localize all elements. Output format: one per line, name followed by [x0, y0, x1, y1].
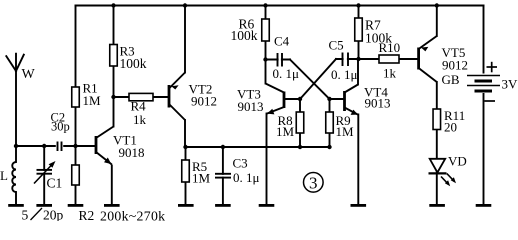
node rail VT2 emitter junction: [183, 3, 187, 7]
wire top supply rail: [76, 5, 484, 7]
ground (C3): [215, 204, 231, 207]
svg-text:C3: C3: [233, 156, 248, 171]
wire VT3 base lead: [284, 98, 300, 100]
svg-text:9018: 9018: [119, 145, 145, 160]
node R6/C4/VT3 collector junction: [263, 57, 267, 61]
svg-text:R2: R2: [79, 208, 95, 221]
capacitor C4: [273, 33, 300, 81]
label C1 value: [22, 208, 64, 223]
wire base wire VT1: [16, 145, 96, 147]
resistor R10: [379, 40, 401, 81]
wire R10 run: [359, 58, 419, 60]
svg-text:W: W: [22, 67, 36, 82]
svg-text:0. 1μ: 0. 1μ: [233, 170, 260, 185]
wire L bottom lead: [15, 192, 17, 204]
svg-text:1M: 1M: [336, 124, 355, 139]
transistor VT3: [266, 84, 285, 115]
LED VD: [429, 154, 467, 187]
svg-text:9012: 9012: [191, 94, 217, 109]
transistor VT5: [419, 36, 437, 82]
svg-text:3V: 3V: [502, 77, 518, 92]
svg-text:20p: 20p: [43, 208, 64, 222]
resistor R4: [129, 93, 153, 127]
svg-text:C4: C4: [274, 33, 290, 48]
inductor L: [12, 162, 16, 192]
svg-text:C5: C5: [329, 38, 344, 53]
wire R8 column: [299, 99, 301, 147]
svg-text:200k~270k: 200k~270k: [100, 209, 165, 222]
node R9 bottom junction: [327, 145, 331, 149]
capacitor C2: [51, 110, 70, 152]
antenna W: [6, 54, 24, 71]
wire bottom bias rail: [186, 146, 331, 148]
resistor R9: [326, 112, 354, 139]
transistor VT1: [96, 127, 114, 205]
wire VT3 emitter column: [266, 114, 268, 205]
wire R5 column: [185, 147, 187, 204]
transistor VT4: [345, 85, 359, 115]
ground (VD): [429, 204, 445, 207]
svg-text:1M: 1M: [276, 124, 295, 139]
svg-text:5: 5: [22, 208, 29, 222]
node rail R7 junction: [356, 3, 360, 7]
wire VT4 base lead: [330, 98, 345, 100]
battery plus sign: [487, 62, 498, 73]
wire R9 column: [329, 99, 331, 147]
ground (VT4 emitter): [351, 204, 367, 207]
wire R7 column: [358, 6, 360, 60]
wire battery column: [483, 6, 485, 205]
battery GB: [442, 72, 518, 93]
wire R6 column: [265, 6, 267, 60]
capacitor C1 (variable): [34, 161, 62, 191]
capacitor C3: [215, 156, 260, 186]
resistor R1: [72, 81, 101, 109]
wire VT5 collector / R11 / VD column: [436, 82, 438, 204]
svg-text:100k: 100k: [120, 56, 147, 71]
battery minus sign: [485, 100, 496, 102]
wire VT2 collector column: [184, 120, 186, 147]
ground (battery): [476, 204, 492, 207]
capacitor C5: [329, 38, 358, 83]
svg-text:0. 1μ: 0. 1μ: [273, 66, 300, 81]
node R7/C5/VT4 collector junction: [356, 57, 360, 61]
svg-text:1k: 1k: [383, 66, 397, 81]
ground (R2): [68, 204, 84, 207]
ground (R5): [178, 204, 194, 207]
node VT2 collector / R5 junction: [183, 145, 187, 149]
node VT4 base / R9 junction: [327, 97, 331, 101]
ground (C1): [36, 204, 52, 207]
node rail VT5 emitter junction: [435, 3, 439, 7]
wire VT4 emitter column: [357, 115, 359, 205]
node rail R6 junction: [263, 3, 267, 7]
wire VT5 emitter column: [436, 6, 438, 37]
ground (VT3 emitter): [259, 204, 275, 207]
resistor R11: [433, 108, 465, 135]
resistor R5: [182, 159, 211, 186]
wire R4 run: [114, 96, 170, 98]
wire cross coupling C5 to VT3 base: [300, 59, 336, 99]
wire cross coupling C4 to VT4 base: [290, 60, 330, 100]
node R3/R4/VT1 collector junction: [111, 95, 115, 99]
ground (L): [8, 204, 24, 207]
transistor VT2: [169, 73, 185, 121]
wire antenna/L column: [15, 71, 17, 162]
resistor R8: [276, 112, 304, 139]
wire R1/R2 column: [75, 6, 77, 205]
node C3 junction: [221, 145, 225, 149]
wire VT3 collector column: [265, 60, 267, 84]
node VT3 base / R8 junction: [298, 97, 302, 101]
svg-text:L: L: [0, 168, 8, 183]
node C1 junction: [42, 144, 46, 148]
wire C5 run: [336, 58, 359, 60]
svg-text:100k: 100k: [231, 28, 258, 43]
wire C4 run: [266, 59, 291, 61]
svg-text:R10: R10: [379, 40, 401, 55]
svg-text:1k: 1k: [133, 112, 147, 127]
figure number 3: [304, 173, 324, 193]
wire VT1 collector column: [113, 97, 115, 127]
ground (VT1 emitter): [104, 204, 120, 207]
wire C1 column: [43, 146, 45, 204]
svg-text:VD: VD: [448, 154, 467, 169]
node rail R3 junction: [111, 3, 115, 7]
wire C3 column: [222, 147, 224, 204]
node antenna/L junction: [14, 144, 18, 148]
wire VT2 emitter column: [184, 6, 186, 73]
resistor R7: [355, 17, 393, 45]
svg-text:9013: 9013: [365, 96, 391, 111]
svg-text:30p: 30p: [51, 120, 70, 134]
node R8 bottom junction: [298, 145, 302, 149]
svg-text:1M: 1M: [192, 171, 211, 186]
svg-text:3: 3: [309, 174, 318, 193]
wire R3 column: [113, 6, 115, 98]
svg-text:1M: 1M: [83, 93, 102, 108]
resistor R3: [110, 44, 147, 72]
svg-text:C1: C1: [47, 176, 63, 191]
resistor R6: [231, 17, 270, 44]
svg-text:0. 1μ: 0. 1μ: [331, 67, 358, 82]
svg-text:9013: 9013: [238, 99, 264, 114]
resistor R2: [72, 165, 95, 223]
svg-text:GB: GB: [442, 72, 460, 87]
svg-text:9012: 9012: [442, 58, 468, 73]
wire VT4 collector column: [357, 59, 359, 85]
node R1/R2 junction: [73, 144, 77, 148]
svg-text:20: 20: [444, 120, 457, 135]
